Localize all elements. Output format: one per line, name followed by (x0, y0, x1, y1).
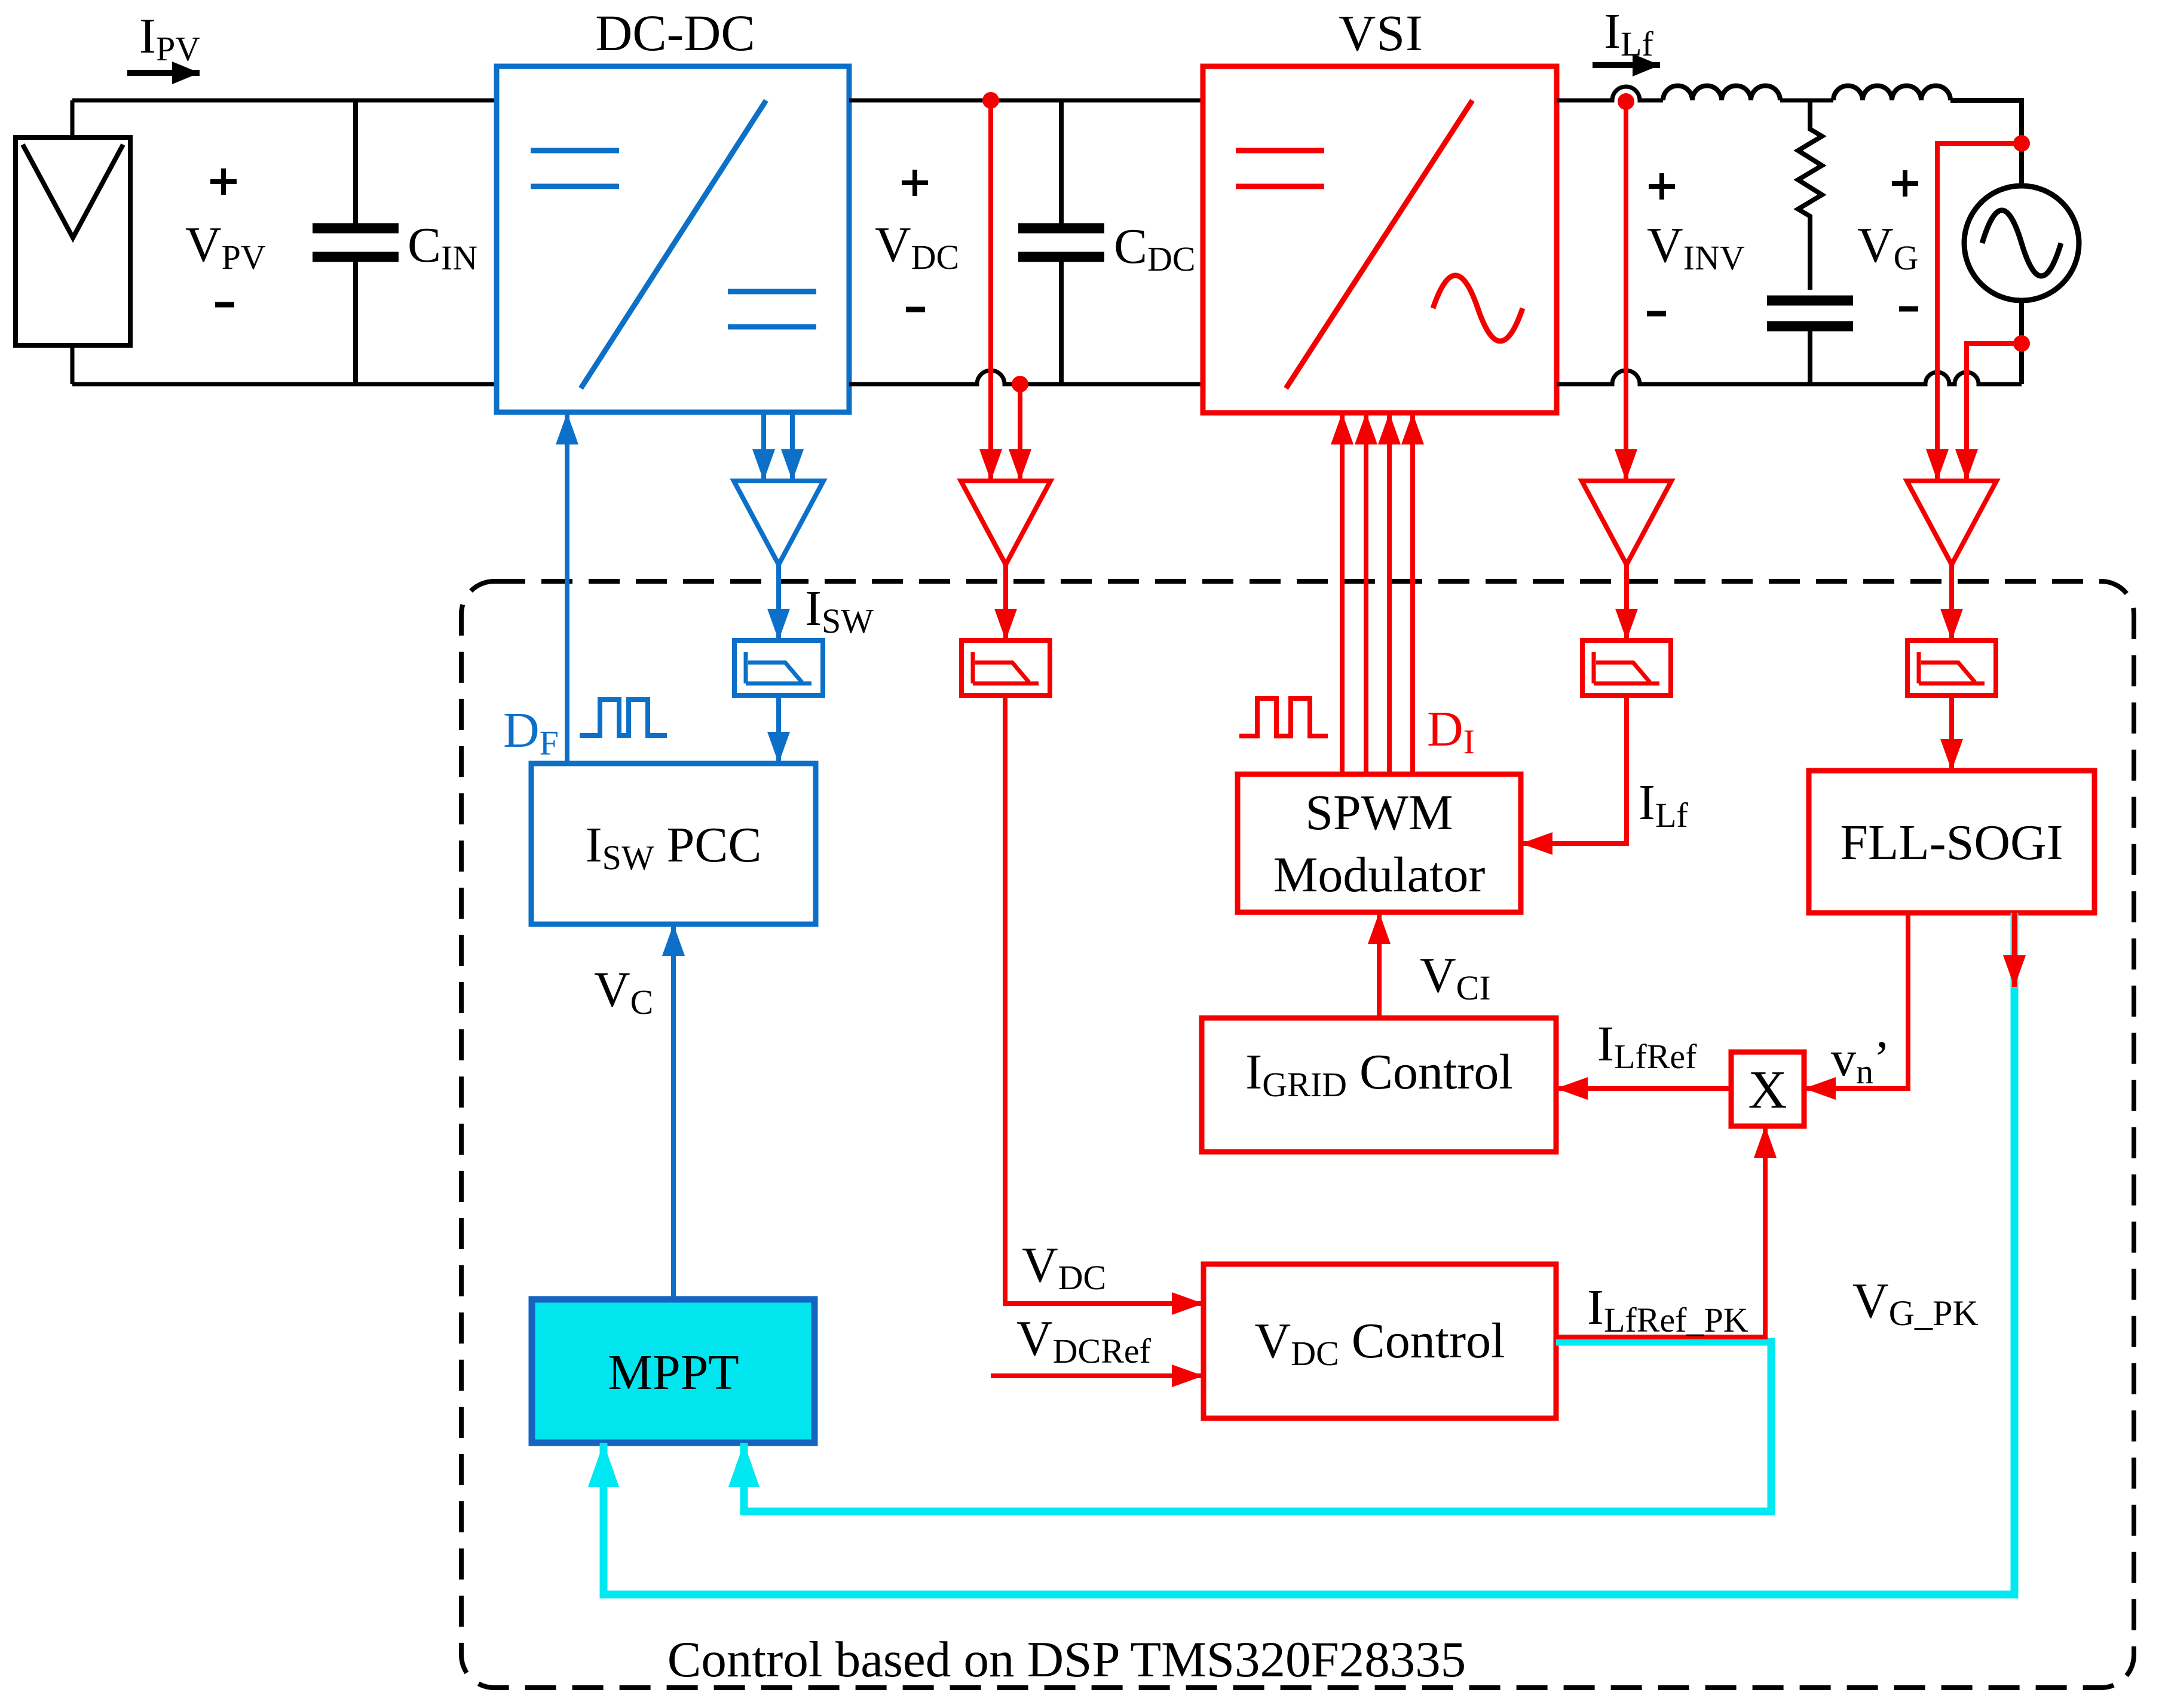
wire grid top corner (1950, 100, 2022, 186)
filter ILf lowpass (1582, 640, 1671, 695)
svg-text:DI: DI (1427, 701, 1475, 761)
svg-text:VDCRef: VDCRef (1016, 1311, 1152, 1370)
svg-text:VC: VC (594, 962, 653, 1022)
amplifier ISW sensor triangle (734, 481, 823, 565)
svg-text:ISW PCC: ISW PCC (586, 817, 762, 877)
wire VDCRef input (991, 1373, 1204, 1378)
wire DF up to DC-DC (565, 413, 569, 763)
wire source bottom lead (2019, 300, 2024, 384)
label - (VG) (1899, 306, 1918, 312)
converter DC-DC U1 (497, 66, 849, 412)
wire VDC+ sense down (988, 100, 993, 481)
wire SPWM gate 3 (1387, 413, 1392, 774)
wire top rail right with hop (VSI to grid corner) (1557, 87, 1663, 100)
resistor Rd (1798, 100, 1822, 290)
wire cyan VGPK from FLL-SOGI to MPPT (604, 913, 2014, 1594)
svg-text:MPPT: MPPT (608, 1345, 739, 1400)
filter VG lowpass (1907, 640, 1996, 695)
svg-text:VCI: VCI (1420, 947, 1491, 1007)
label + (VPV) (210, 168, 237, 195)
wire vn' from FLL-SOGI to X (1804, 913, 1908, 1088)
svg-text:IGRID Control: IGRID Control (1245, 1044, 1512, 1104)
svg-text:CIN: CIN (408, 217, 477, 277)
wire red ILfRefPK to X (1556, 1126, 1765, 1337)
svg-text:vn’: vn’ (1831, 1031, 1890, 1091)
wire VG- sense (1967, 344, 2022, 481)
filter ISW lowpass (734, 640, 823, 695)
svg-text:Control based on DSP TMS320F28: Control based on DSP TMS320F28335 (667, 1632, 1466, 1688)
svg-text:SPWM: SPWM (1305, 785, 1453, 841)
block IGRID Control (1202, 1018, 1556, 1152)
dashed DSP boundary (461, 581, 2134, 1688)
arrow IPV (127, 70, 200, 76)
label + (VDC) (902, 170, 928, 196)
label + (VG) (1892, 170, 1918, 197)
wire DC-DC gate drive down 1 (761, 413, 766, 481)
wire VDC to VDC Control (1005, 695, 1204, 1304)
node VDC- sense dot (1012, 376, 1028, 392)
block ISW PCC (531, 763, 816, 924)
arrow ILf top (1593, 62, 1660, 68)
svg-text:VG_PK: VG_PK (1852, 1273, 1979, 1333)
node ILf sense dot (1618, 93, 1634, 110)
PV array PV1 (16, 137, 130, 345)
svg-text:VG: VG (1857, 217, 1919, 277)
svg-text:ILfRef_PK: ILfRef_PK (1587, 1280, 1748, 1339)
svg-text:VDC: VDC (875, 217, 959, 277)
node VDC+ sense dot (982, 92, 999, 109)
wire red VGPK stub (2012, 913, 2017, 987)
wire between inductors (1780, 99, 1833, 103)
sine in source (1982, 210, 2061, 276)
wire bottom rail left (PV to DC-DC) (72, 382, 497, 387)
svg-text:IPV: IPV (139, 8, 200, 68)
svg-text:VINV: VINV (1647, 217, 1745, 277)
wire bottom rail mid with hop (849, 370, 1203, 384)
svg-text:VDC: VDC (1022, 1237, 1106, 1297)
wire SPWM gate 4 (1410, 413, 1415, 774)
label - (VINV) (1647, 311, 1666, 317)
wire VG triangle to filter (1949, 565, 1954, 640)
svg-text:ILfRef: ILfRef (1597, 1016, 1697, 1076)
filter VDC lowpass (961, 640, 1050, 695)
block MPPT (532, 1299, 814, 1443)
capacitor Cf (1767, 300, 1853, 384)
label - (VPV) (215, 302, 234, 308)
svg-text:VSI: VSI (1339, 4, 1423, 62)
block SPWM Modulator (1238, 774, 1521, 912)
wire PV top lead (71, 100, 75, 137)
svg-text:DC-DC: DC-DC (595, 4, 755, 62)
wire PV bottom lead (71, 345, 75, 384)
wire VC up to PCC (671, 924, 676, 1299)
label - (VDC) (906, 307, 925, 312)
capacitor CDC (1018, 100, 1104, 384)
capacitor CIN (313, 100, 399, 384)
wire ISW filter to PCC (776, 695, 781, 763)
svg-text:X: X (1748, 1060, 1787, 1120)
svg-text:FLL-SOGI: FLL-SOGI (1840, 815, 2063, 870)
label + (VINV) (1649, 173, 1675, 200)
node VG- sense dot (2013, 335, 2030, 352)
wire ILf sense down (1624, 102, 1628, 481)
amplifier VDC sensor triangle (961, 481, 1051, 565)
svg-text:ISW: ISW (805, 581, 874, 640)
wire top rail left (PV to DC-DC) (72, 99, 497, 103)
block X multiplier (1731, 1052, 1804, 1126)
svg-text:VDC Control: VDC Control (1255, 1313, 1505, 1373)
wire VG+ sense (1937, 143, 2022, 481)
wire ILf to SPWM Modulator (1521, 695, 1627, 844)
source AC grid VG (1964, 186, 2079, 300)
node VG+ sense dot (2013, 135, 2030, 152)
wire ISW triangle to filter (776, 565, 781, 640)
wire DC-DC gate drive down 2 (790, 413, 795, 481)
wire VG filter to FLL-SOGI (1949, 695, 1954, 771)
symbol DI pulse train (1239, 698, 1328, 736)
wire SPWM gate 1 (1340, 413, 1345, 774)
block FLL-SOGI (1809, 771, 2094, 913)
inductor Lf2 (1833, 86, 1950, 101)
wire VDC- sense down (1018, 384, 1022, 481)
wire ILfRef X to IGRID (1556, 1086, 1731, 1091)
svg-text:VPV: VPV (185, 217, 266, 277)
amplifier VG sensor triangle (1907, 481, 1996, 565)
wire ILf triangle to filter (1624, 565, 1629, 640)
wire SPWM gate 2 (1364, 413, 1368, 774)
amplifier ILf sensor triangle (1582, 481, 1671, 565)
wire VDC triangle to filter (1003, 565, 1008, 640)
block VDC Control (1204, 1264, 1556, 1418)
inductor Lf1 (1663, 86, 1780, 101)
svg-text:ILf: ILf (1639, 775, 1688, 835)
svg-text:ILf: ILf (1604, 4, 1653, 63)
wire cyan ILfRefPK to MPPT (744, 1342, 1771, 1511)
svg-text:DF: DF (503, 703, 559, 762)
wire bottom rail right with hops (1557, 370, 2022, 384)
symbol DF pulse train (580, 700, 667, 735)
inverter VSI U2 (1203, 66, 1557, 413)
svg-text:CDC: CDC (1114, 219, 1196, 278)
wire top rail mid (DC-DC to VSI) (849, 99, 1203, 103)
wire VCI up (1377, 912, 1382, 1018)
svg-text:Modulator: Modulator (1273, 847, 1486, 903)
